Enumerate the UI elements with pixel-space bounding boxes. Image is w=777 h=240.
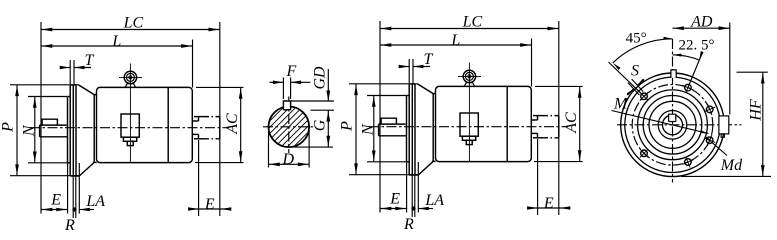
svg-text:S: S xyxy=(631,63,639,80)
svg-text:45°: 45° xyxy=(626,30,647,46)
svg-text:N: N xyxy=(21,124,38,137)
svg-text:F: F xyxy=(286,63,297,80)
svg-text:E: E xyxy=(204,196,215,213)
svg-text:Md: Md xyxy=(720,157,743,174)
svg-text:T: T xyxy=(85,52,95,69)
svg-text:HF: HF xyxy=(747,99,764,122)
svg-text:M: M xyxy=(613,96,629,113)
svg-text:G: G xyxy=(312,119,329,131)
svg-text:22. 5°: 22. 5° xyxy=(679,38,715,54)
svg-text:E: E xyxy=(50,191,61,208)
svg-text:LA: LA xyxy=(85,193,105,210)
svg-text:GD: GD xyxy=(311,66,328,90)
svg-text:L: L xyxy=(111,33,121,50)
svg-text:LC: LC xyxy=(123,14,144,31)
svg-text:AD: AD xyxy=(690,13,713,30)
svg-text:AC: AC xyxy=(224,113,241,135)
svg-text:D: D xyxy=(282,151,295,168)
svg-text:R: R xyxy=(64,217,75,233)
svg-text:P: P xyxy=(0,122,17,133)
